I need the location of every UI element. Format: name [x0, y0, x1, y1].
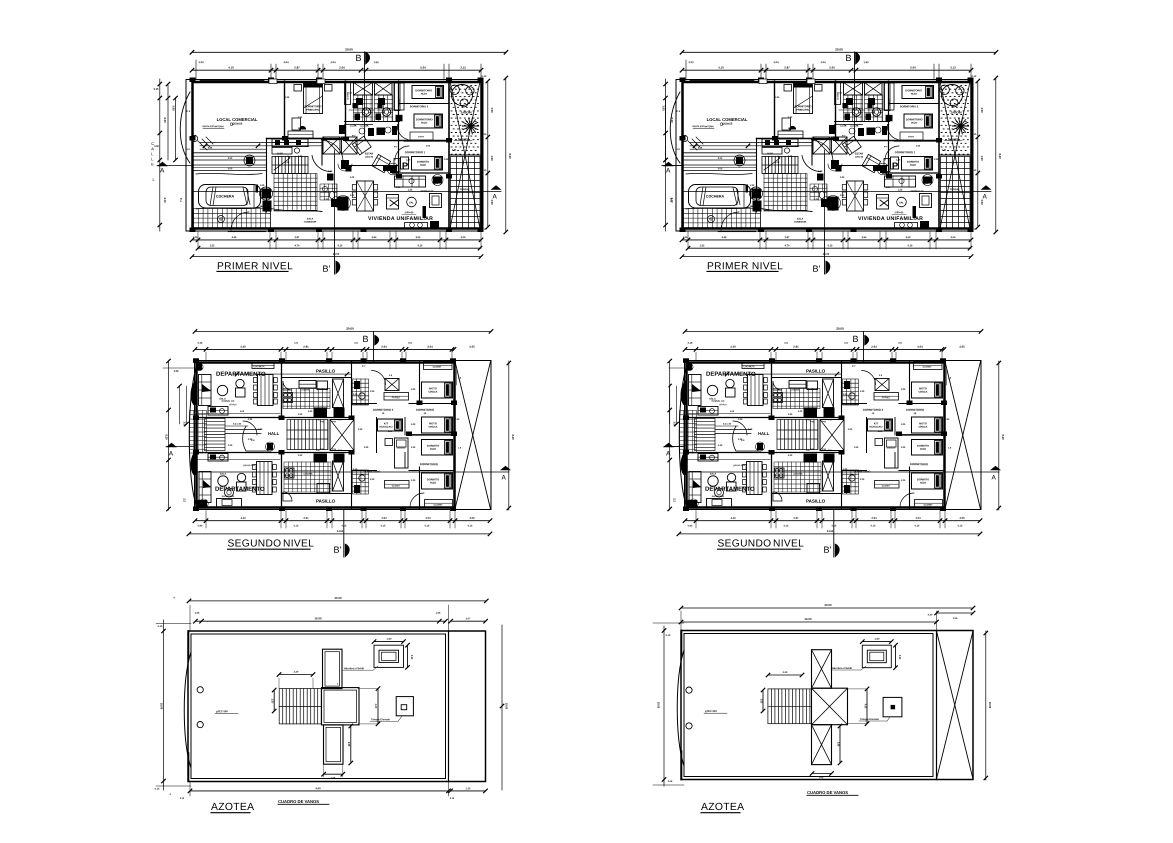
svg-text:3.13: 3.13 — [460, 65, 466, 69]
svg-text:1.50: 1.50 — [875, 638, 880, 641]
svg-text:3.04: 3.04 — [416, 236, 421, 239]
svg-text:COCINETA: COCINETA — [253, 365, 265, 368]
svg-text:0.9: 0.9 — [408, 342, 412, 345]
svg-text:DEPARTAMENTO: DEPARTAMENTO — [215, 487, 265, 493]
svg-text:COCHERA: COCHERA — [216, 194, 235, 198]
svg-text:Tanque Elevado: Tanque Elevado — [860, 718, 879, 721]
svg-text:HIJO: HIJO — [430, 481, 436, 485]
svg-text:1.50: 1.50 — [490, 155, 494, 161]
svg-text:20.00: 20.00 — [333, 252, 340, 256]
svg-text:DORMITORIO 1: DORMITORIO 1 — [405, 150, 426, 154]
svg-text:1.20: 1.20 — [350, 177, 355, 179]
svg-text:CLOSET: CLOSET — [434, 504, 444, 506]
svg-text:24.50: 24.50 — [337, 529, 344, 533]
svg-text:1.05: 1.05 — [436, 612, 441, 615]
svg-text:1.52: 1.52 — [210, 244, 215, 247]
svg-text:1.95: 1.95 — [953, 617, 958, 620]
svg-text:0.15: 0.15 — [482, 228, 487, 231]
svg-text:3.04: 3.04 — [427, 345, 433, 349]
svg-text:JARDIN: JARDIN — [460, 111, 471, 115]
svg-text:3.00: 3.00 — [198, 60, 204, 64]
svg-text:1.20: 1.20 — [298, 117, 303, 119]
svg-text:HALL: HALL — [268, 431, 280, 436]
svg-text:B: B — [355, 53, 361, 63]
svg-text:1.20: 1.20 — [411, 424, 416, 426]
svg-text:CLOSET: CLOSET — [392, 485, 401, 487]
svg-text:A: A — [501, 475, 506, 482]
svg-text:8.20: 8.20 — [163, 117, 167, 123]
svg-text:10.00: 10.00 — [160, 703, 164, 710]
svg-text:PRINCIPAL: PRINCIPAL — [306, 108, 320, 112]
svg-text:2.64: 2.64 — [372, 236, 377, 239]
svg-text:1.20: 1.20 — [411, 389, 416, 391]
svg-text:4.40: 4.40 — [374, 704, 377, 709]
svg-text:1.10: 1.10 — [898, 655, 900, 660]
svg-text:3.04: 3.04 — [330, 60, 336, 64]
svg-text:gTEC 500: gTEC 500 — [705, 709, 717, 713]
svg-text:10.00: 10.00 — [504, 703, 508, 710]
svg-text:1.05: 1.05 — [195, 612, 200, 615]
svg-text:4.40: 4.40 — [240, 345, 246, 349]
svg-text:2.20: 2.20 — [294, 670, 299, 673]
svg-text:1.20: 1.20 — [248, 439, 253, 441]
svg-text:2.95: 2.95 — [347, 742, 349, 747]
svg-text:P-1: P-1 — [179, 198, 182, 202]
svg-text:@50=50: @50=50 — [405, 212, 414, 214]
svg-text:DORMITORIO 3: DORMITORIO 3 — [373, 408, 394, 412]
svg-text:0.15: 0.15 — [482, 169, 487, 172]
svg-text:0.90: 0.90 — [154, 145, 159, 148]
svg-text:16.00: 16.00 — [804, 617, 811, 621]
svg-text:0.15: 0.15 — [154, 88, 159, 91]
svg-text:1.20: 1.20 — [298, 455, 303, 457]
svg-text:3.04: 3.04 — [283, 60, 289, 64]
svg-text:20.00: 20.00 — [345, 47, 353, 51]
svg-text:P-H: P-H — [338, 450, 342, 452]
svg-text:1.20: 1.20 — [353, 394, 358, 396]
svg-text:2.95: 2.95 — [836, 742, 838, 747]
svg-text:4.40: 4.40 — [863, 704, 866, 709]
svg-text:2.87: 2.87 — [295, 236, 300, 239]
svg-text:1.50: 1.50 — [387, 638, 392, 641]
svg-text:Abertura d SxhB: Abertura d SxhB — [832, 667, 852, 670]
svg-text:1.05: 1.05 — [819, 776, 824, 779]
svg-text:MUEBLE TV: MUEBLE TV — [421, 191, 434, 193]
svg-text:1.20: 1.20 — [388, 431, 393, 433]
svg-text:3.04: 3.04 — [425, 516, 431, 520]
svg-text:1.20: 1.20 — [408, 189, 413, 191]
svg-text:1.50: 1.50 — [271, 699, 273, 704]
svg-text:VENTA ESTANTERIA: VENTA ESTANTERIA — [202, 125, 224, 128]
svg-text:4.45: 4.45 — [232, 236, 237, 239]
svg-text:B': B' — [333, 545, 341, 555]
svg-text:10.00: 10.00 — [657, 702, 661, 709]
svg-text:1.20: 1.20 — [328, 171, 333, 173]
svg-text:ESTAR: ESTAR — [365, 151, 374, 155]
svg-text:4.70: 4.70 — [295, 244, 300, 247]
svg-text:0.15: 0.15 — [468, 524, 473, 527]
svg-text:SEGUNDO: SEGUNDO — [227, 539, 281, 550]
svg-text:1.20: 1.20 — [358, 429, 363, 431]
svg-text:2.50: 2.50 — [228, 158, 233, 160]
svg-text:NIVEL: NIVEL — [283, 539, 314, 550]
svg-text:AZOTEA: AZOTEA — [701, 802, 744, 813]
svg-text:1.5: 1.5 — [354, 342, 358, 345]
svg-text:1.5: 1.5 — [294, 342, 298, 345]
svg-text:4.05: 4.05 — [469, 345, 475, 349]
svg-text:B': B' — [322, 264, 330, 274]
svg-text:2.91: 2.91 — [303, 345, 309, 349]
svg-text:1.20: 1.20 — [444, 159, 449, 161]
svg-text:1.20: 1.20 — [260, 185, 265, 187]
svg-text:3.00: 3.00 — [490, 199, 494, 205]
svg-text:0.15: 0.15 — [294, 524, 299, 527]
svg-text:ESCRITORIO: ESCRITORIO — [222, 496, 235, 498]
svg-text:1.20: 1.20 — [285, 162, 290, 164]
svg-text:3.07: 3.07 — [466, 617, 471, 620]
svg-text:Sub 2.50: Sub 2.50 — [233, 423, 242, 425]
svg-text:3.00: 3.00 — [490, 107, 494, 113]
svg-text:A: A — [160, 168, 165, 175]
svg-text:@SALA 3.00: @SALA 3.00 — [243, 464, 256, 467]
svg-text:1.10: 1.10 — [410, 655, 412, 660]
svg-text:AZOTEA: AZOTEA — [211, 802, 254, 813]
svg-text:1.20: 1.20 — [285, 97, 290, 99]
svg-text:1.20: 1.20 — [308, 411, 313, 413]
svg-text:0.90: 0.90 — [198, 524, 203, 527]
svg-text:HIJO: HIJO — [430, 447, 436, 451]
svg-text:@50=50: @50=50 — [365, 157, 374, 159]
svg-text:0.15: 0.15 — [342, 524, 347, 527]
svg-text:2.64: 2.64 — [339, 65, 345, 69]
svg-text:0.15: 0.15 — [158, 625, 163, 628]
svg-text:2.64: 2.64 — [381, 516, 387, 520]
svg-text:P-H: P-H — [332, 422, 336, 424]
svg-text:P-4: P-4 — [186, 110, 190, 113]
svg-text:DORMITORIO: DORMITORIO — [416, 408, 435, 412]
svg-text:1.20: 1.20 — [174, 370, 179, 373]
svg-text:1.20: 1.20 — [411, 447, 416, 449]
svg-text:P: P — [402, 161, 409, 172]
svg-text:8.20: 8.20 — [508, 153, 512, 159]
svg-text:CLOSET: CLOSET — [433, 366, 443, 368]
svg-text:gTEC 500: gTEC 500 — [216, 709, 228, 713]
svg-text:1.20: 1.20 — [324, 199, 329, 201]
svg-text:2.87: 2.87 — [294, 65, 300, 69]
svg-text:PASILLO: PASILLO — [316, 499, 336, 504]
svg-text:CUADRO DE VANOS: CUADRO DE VANOS — [278, 799, 319, 804]
svg-text:HIJO: HIJO — [421, 92, 427, 96]
svg-text:SALA: SALA — [220, 472, 227, 475]
svg-text:1.20: 1.20 — [228, 445, 233, 447]
svg-text:4.40: 4.40 — [928, 613, 933, 616]
svg-text:8.20: 8.20 — [165, 434, 169, 440]
svg-text:A: A — [666, 168, 671, 175]
svg-text:20.00: 20.00 — [334, 596, 341, 600]
svg-text:10.00: 10.00 — [988, 702, 992, 709]
svg-text:Abertura d SxhB: Abertura d SxhB — [344, 667, 364, 670]
svg-text:4.10: 4.10 — [670, 197, 674, 203]
svg-text:HIJO: HIJO — [421, 121, 427, 125]
svg-text:CUADRO DE VANOS: CUADRO DE VANOS — [807, 790, 848, 795]
svg-text:20.00: 20.00 — [824, 603, 831, 607]
svg-text:0.15: 0.15 — [198, 342, 203, 345]
svg-text:A: A — [169, 451, 174, 458]
svg-text:2.2: 2.2 — [183, 498, 187, 502]
svg-text:1.20: 1.20 — [350, 195, 355, 197]
svg-text:4.10: 4.10 — [228, 65, 234, 69]
svg-text:DORMITORIO 2: DORMITORIO 2 — [410, 105, 429, 108]
svg-text:KUKULKO: KUKULKO — [380, 425, 393, 429]
svg-text:CLOSET: CLOSET — [399, 97, 401, 106]
svg-text:1.20: 1.20 — [411, 480, 416, 482]
svg-text:2.91: 2.91 — [303, 516, 309, 520]
svg-text:COMEDOR: COMEDOR — [304, 221, 317, 224]
svg-text:3.00: 3.00 — [183, 421, 187, 427]
svg-text:Agapanto: Agapanto — [458, 138, 469, 141]
svg-text:1.20: 1.20 — [406, 159, 411, 161]
svg-text:A: A — [666, 451, 671, 458]
svg-text:9.60: 9.60 — [315, 786, 321, 790]
svg-text:1.20: 1.20 — [370, 391, 375, 393]
svg-text:1.05: 1.05 — [193, 236, 198, 239]
svg-text:@SALA: @SALA — [229, 403, 237, 406]
svg-text:Tanque Elevado: Tanque Elevado — [371, 718, 390, 721]
svg-text:16.00: 16.00 — [314, 616, 321, 620]
svg-text:1.20: 1.20 — [248, 419, 253, 421]
svg-text:PRIMER NIVEL: PRIMER NIVEL — [217, 261, 293, 272]
svg-text:0.15: 0.15 — [381, 524, 386, 527]
svg-text:2.20: 2.20 — [783, 671, 788, 674]
svg-text:5.00: 5.00 — [228, 168, 233, 170]
svg-text:1.20: 1.20 — [298, 156, 303, 158]
svg-text:20.00: 20.00 — [346, 327, 354, 331]
svg-text:DORMITORIO: DORMITORIO — [420, 462, 439, 466]
svg-text:1.50: 1.50 — [373, 60, 379, 64]
svg-text:0.15: 0.15 — [425, 524, 430, 527]
svg-text:E: E — [151, 162, 154, 167]
svg-text:1.05: 1.05 — [331, 777, 336, 780]
svg-text:4.10: 4.10 — [163, 197, 167, 203]
svg-text:1.20: 1.20 — [455, 419, 460, 421]
svg-text:1.50: 1.50 — [759, 699, 761, 704]
svg-text:CHULK: CHULK — [428, 425, 437, 429]
svg-text:KOMUN_CO: KOMUN_CO — [222, 401, 235, 403]
svg-text:0.15: 0.15 — [155, 787, 160, 790]
svg-text:DORMITORIO: DORMITORIO — [364, 469, 381, 473]
svg-text:1.25: 1.25 — [466, 787, 471, 790]
svg-text:4.05: 4.05 — [469, 516, 475, 520]
svg-text:1.20: 1.20 — [258, 429, 263, 431]
svg-text:1.20: 1.20 — [364, 447, 369, 449]
svg-text:1.20: 1.20 — [305, 146, 310, 148]
svg-text:8.20: 8.20 — [511, 434, 515, 440]
svg-text:PASILLO: PASILLO — [316, 369, 336, 374]
svg-text:1.20: 1.20 — [370, 479, 375, 481]
svg-text:1.20: 1.20 — [434, 183, 439, 185]
svg-text:0.15: 0.15 — [666, 634, 671, 637]
svg-text:COCINA: COCINA — [300, 388, 309, 391]
svg-text:0.15: 0.15 — [482, 133, 487, 136]
svg-text:B: B — [362, 334, 368, 344]
svg-text:0.15: 0.15 — [338, 244, 343, 247]
svg-text:HIJO: HIJO — [420, 163, 426, 167]
svg-text:SAL: SAL — [409, 201, 414, 204]
svg-text:1.20: 1.20 — [353, 469, 358, 471]
svg-text:@50=50: @50=50 — [232, 122, 243, 126]
svg-text:8.20: 8.20 — [670, 117, 674, 123]
svg-text:3.04: 3.04 — [461, 236, 466, 239]
svg-text:1.20: 1.20 — [396, 187, 401, 189]
svg-text:VIVIENDA UNIFAMILIAR: VIVIENDA UNIFAMILIAR — [368, 216, 433, 222]
svg-text:4.40: 4.40 — [240, 516, 246, 520]
svg-text:2.64: 2.64 — [381, 345, 387, 349]
svg-text:CLOSET: CLOSET — [392, 397, 401, 399]
svg-text:CHULK: CHULK — [428, 390, 437, 394]
svg-text:4.05: 4.05 — [668, 780, 673, 783]
svg-text:P-H: P-H — [332, 449, 336, 451]
svg-text:0.15: 0.15 — [418, 244, 423, 247]
svg-text:5.04: 5.04 — [420, 65, 426, 69]
svg-text:3.05: 3.05 — [172, 105, 176, 111]
svg-text:closet: closet — [418, 135, 424, 138]
svg-text:2R: 2R — [424, 413, 427, 415]
svg-text:TENDAL: TENDAL — [460, 187, 471, 191]
svg-text:0.15: 0.15 — [482, 75, 487, 78]
svg-text:1.20: 1.20 — [298, 414, 303, 416]
svg-text:COCINA: COCINA — [303, 472, 312, 475]
